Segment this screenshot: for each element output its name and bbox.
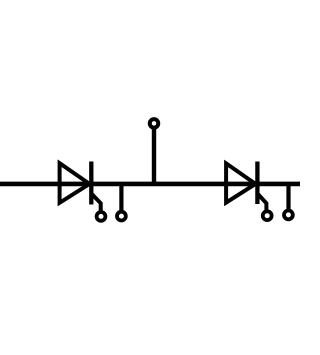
thyristor V1 cathode bar [89,162,93,205]
terminal 3 top circle [150,119,159,128]
terminal G2 gate circle [263,211,272,220]
thyristor V1 triangle (anode left) [60,163,90,203]
wire main horizontal bus [0,182,300,187]
terminal K2 auxiliary cathode circle [284,211,293,220]
thyristor V1 gate lead [91,194,100,212]
terminal K1 auxiliary cathode circle [117,212,126,221]
thyristor V2 triangle (anode left) [226,163,255,202]
wire top terminal (AC node) [152,129,156,184]
wire auxiliary cathode K2 [286,184,290,209]
terminal G1 gate circle [97,212,106,221]
thyristor V2 cathode bar [255,162,259,205]
thyristor V2 gate lead [257,194,266,211]
wire auxiliary cathode K1 [119,184,123,210]
